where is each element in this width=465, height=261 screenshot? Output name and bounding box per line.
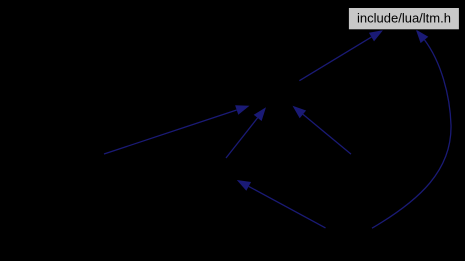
svg-text:include/lua/ltm.h: include/lua/ltm.h (357, 10, 451, 25)
